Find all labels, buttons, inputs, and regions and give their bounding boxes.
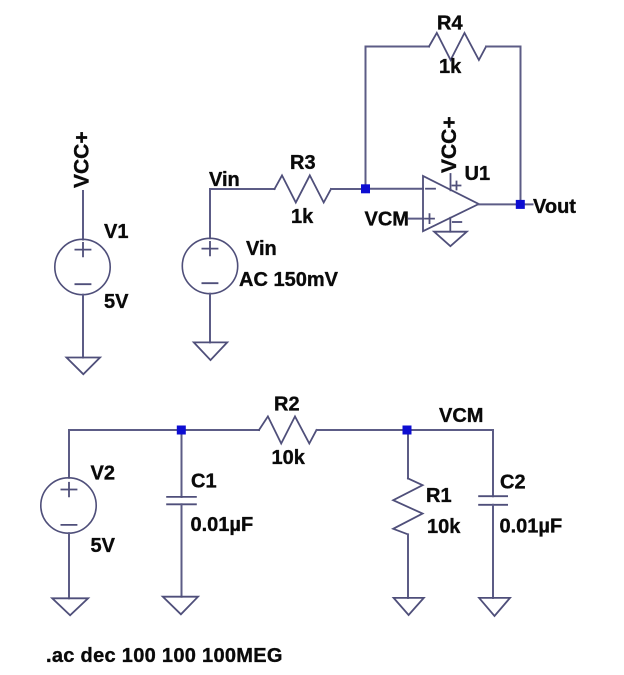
label R4 bbox=[437, 13, 463, 35]
value 5V (V2) bbox=[91, 535, 116, 557]
value 0.01µF (C2) bbox=[500, 516, 563, 538]
value 10k (R2) bbox=[272, 447, 306, 469]
value 1k (R4) bbox=[439, 56, 462, 78]
net label Vout bbox=[533, 196, 576, 218]
wire op-amp output to Vout bbox=[479, 203, 533, 205]
wire node VCM to C2 bbox=[408, 430, 493, 496]
net label VCM (bottom) bbox=[439, 405, 483, 427]
wire C1 top bbox=[181, 430, 183, 497]
node VCM junction bbox=[403, 426, 412, 435]
voltage source V1 bbox=[55, 239, 110, 294]
resistor R2 bbox=[259, 416, 316, 443]
wire Vin node to R3 bbox=[210, 189, 275, 238]
wire V1 top bbox=[82, 191, 84, 240]
wire V2 top to bottom bus bbox=[69, 430, 259, 478]
svg-text:V2: V2 bbox=[91, 463, 115, 485]
op-amp U1 bbox=[423, 174, 479, 232]
ground (R1) bbox=[394, 598, 424, 615]
svg-text:.ac dec 100 100 100MEG: .ac dec 100 100 100MEG bbox=[46, 645, 283, 667]
label U1 bbox=[465, 163, 491, 185]
wire node A to op-amp inverting input bbox=[366, 188, 424, 190]
svg-text:C1: C1 bbox=[191, 471, 217, 493]
wire R1 bottom bbox=[407, 534, 409, 598]
net label Vin bbox=[209, 169, 240, 191]
net label VCM (op-amp input) bbox=[365, 209, 409, 231]
wire R4 right lead and riser to output bbox=[486, 47, 520, 205]
capacitor C2 bbox=[479, 496, 507, 505]
svg-text:VCC+: VCC+ bbox=[438, 116, 461, 173]
svg-text:C2: C2 bbox=[500, 472, 526, 494]
wire R3 to node A bbox=[331, 188, 366, 190]
spice directive .ac bbox=[46, 645, 283, 667]
wire C2 bottom bbox=[492, 505, 494, 598]
net label VCC+ (V1 supply flag) bbox=[71, 131, 94, 188]
svg-text:Vin: Vin bbox=[209, 169, 240, 191]
svg-text:VCM: VCM bbox=[439, 405, 483, 427]
svg-text:1k: 1k bbox=[291, 206, 314, 228]
svg-text:10k: 10k bbox=[427, 516, 461, 538]
ground (C1) bbox=[163, 597, 198, 615]
svg-text:R3: R3 bbox=[290, 152, 316, 174]
wire C1 bottom bbox=[181, 504, 183, 596]
ground (Vin) bbox=[194, 342, 227, 360]
svg-text:V1: V1 bbox=[104, 221, 128, 243]
wire V2 bottom bbox=[68, 533, 70, 598]
ground (V1) bbox=[67, 358, 101, 375]
wire R2 to node VCM bbox=[317, 429, 408, 431]
svg-text:5V: 5V bbox=[104, 291, 129, 313]
node C1 junction bbox=[177, 426, 186, 435]
ground (op-amp) bbox=[434, 232, 467, 247]
label C1 bbox=[191, 471, 217, 493]
svg-text:R1: R1 bbox=[426, 485, 452, 507]
label R3 bbox=[290, 152, 316, 174]
svg-text:5V: 5V bbox=[91, 535, 116, 557]
node Vout junction bbox=[516, 200, 525, 209]
wire R1 top bbox=[407, 430, 409, 478]
svg-text:VCM: VCM bbox=[365, 209, 409, 231]
resistor R3 bbox=[275, 175, 331, 202]
ground (V2) bbox=[52, 598, 88, 615]
net label VCC+ (op-amp supply) bbox=[438, 116, 461, 173]
svg-text:U1: U1 bbox=[465, 163, 491, 185]
svg-text:VCC+: VCC+ bbox=[71, 131, 94, 188]
wire V1 bottom bbox=[82, 295, 84, 358]
label C2 bbox=[500, 472, 526, 494]
svg-text:0.01µF: 0.01µF bbox=[191, 514, 254, 536]
value 1k (R3) bbox=[291, 206, 314, 228]
wire VCM to op-amp non-inverting input bbox=[409, 218, 423, 220]
svg-text:10k: 10k bbox=[272, 447, 306, 469]
voltage source Vin bbox=[182, 238, 237, 293]
svg-text:1k: 1k bbox=[439, 56, 462, 78]
wire R4 left lead bbox=[366, 46, 430, 48]
svg-text:Vout: Vout bbox=[533, 196, 576, 218]
label V2 bbox=[91, 463, 115, 485]
svg-text:R2: R2 bbox=[274, 394, 300, 416]
svg-text:AC 150mV: AC 150mV bbox=[239, 269, 339, 291]
resistor R4 bbox=[429, 33, 486, 60]
resistor R1 bbox=[393, 478, 422, 534]
label Vin (source) bbox=[246, 238, 277, 260]
value 10k (R1) bbox=[427, 516, 461, 538]
value 5V (V1) bbox=[104, 291, 129, 313]
label V1 bbox=[104, 221, 128, 243]
value AC 150mV bbox=[239, 269, 339, 291]
capacitor C1 bbox=[167, 497, 196, 504]
node A junction bbox=[361, 184, 370, 193]
wire node A to R4 riser bbox=[365, 47, 367, 190]
svg-text:Vin: Vin bbox=[246, 238, 277, 260]
ground (C2) bbox=[479, 598, 510, 616]
wire Vin source bottom bbox=[209, 294, 211, 343]
label R2 bbox=[274, 394, 300, 416]
svg-text:0.01µF: 0.01µF bbox=[500, 516, 563, 538]
voltage source V2 bbox=[41, 478, 96, 533]
svg-text:R4: R4 bbox=[437, 13, 463, 35]
label R1 bbox=[426, 485, 452, 507]
value 0.01µF (C1) bbox=[191, 514, 254, 536]
